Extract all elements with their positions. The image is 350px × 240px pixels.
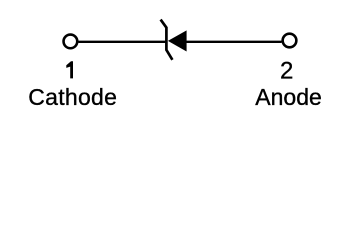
zener diode D1 triangle (anode arrow)	[168, 30, 187, 51]
svg-text:2: 2	[280, 58, 293, 85]
pin number 1	[66, 61, 73, 78]
terminal circle 2 (anode)	[283, 34, 297, 48]
terminal circle 1 (cathode)	[64, 35, 78, 49]
wire cathode-to-zener	[78, 41, 165, 43]
svg-text:Anode: Anode	[255, 84, 322, 110]
wire zener-to-anode	[186, 41, 282, 43]
zener diode D1 cathode bar	[161, 20, 173, 60]
svg-text:Cathode: Cathode	[28, 84, 117, 110]
